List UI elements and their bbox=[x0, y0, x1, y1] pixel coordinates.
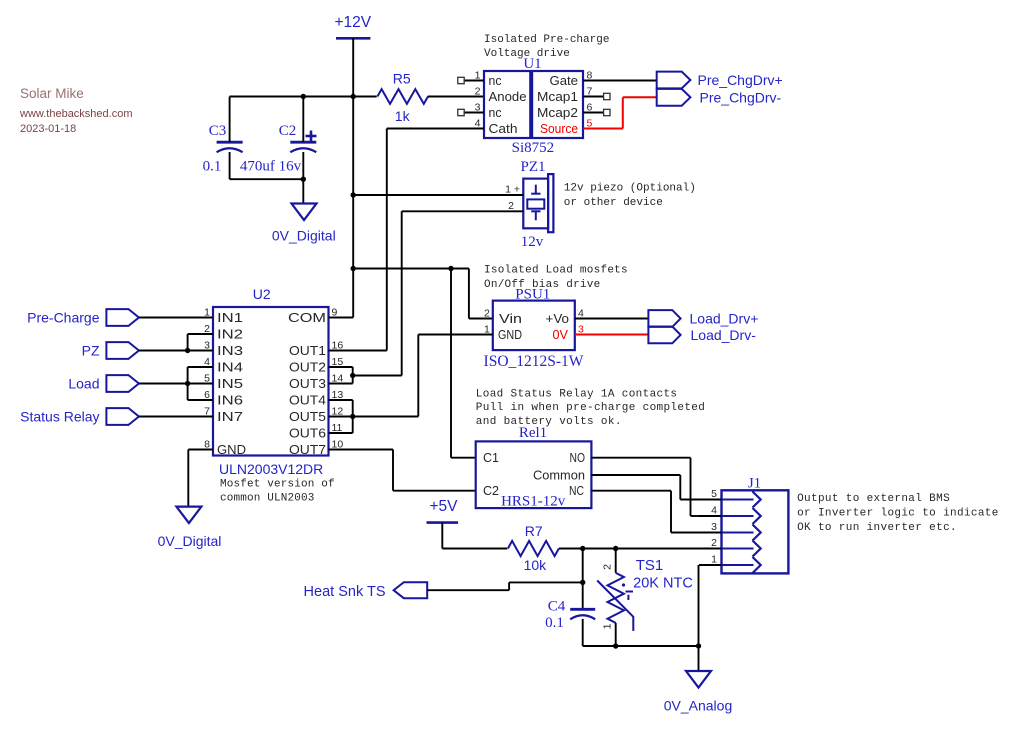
svg-text:0V: 0V bbox=[553, 327, 569, 342]
svg-text:0V_Analog: 0V_Analog bbox=[664, 698, 733, 714]
junction +12V/PZ1 bbox=[351, 192, 356, 197]
junction +12V/Vin branch bbox=[351, 266, 356, 271]
wire C2 top bbox=[302, 97, 304, 143]
wire COM to +12V rail bbox=[329, 317, 354, 319]
wire R7 to C4 bbox=[582, 549, 584, 610]
U1 pin 2 number bbox=[475, 86, 481, 98]
wire U1 Cath down to OUT1 bbox=[387, 129, 484, 351]
svg-text:+Vo: +Vo bbox=[546, 311, 570, 326]
capacitor C2 bbox=[240, 123, 317, 175]
svg-text:PZ1: PZ1 bbox=[520, 159, 545, 175]
wire IN4/IN6 bracket bbox=[188, 367, 213, 400]
wire R7 to TS1 bbox=[615, 549, 617, 573]
svg-text:OUT4: OUT4 bbox=[289, 393, 326, 408]
svg-text:J1: J1 bbox=[748, 476, 761, 492]
svg-text:OUT7: OUT7 bbox=[289, 442, 326, 457]
comment text isolated pre-charge bbox=[484, 34, 609, 60]
U2 pin names right bbox=[288, 310, 326, 457]
wire U2 GND to ground bbox=[188, 450, 213, 507]
svg-text:5: 5 bbox=[711, 488, 717, 500]
svg-text:Output to external BMS: Output to external BMS bbox=[797, 493, 950, 505]
svg-text:Anode: Anode bbox=[489, 89, 527, 104]
svg-text:1: 1 bbox=[602, 623, 614, 629]
wire Status Relay to IN7 bbox=[139, 416, 213, 418]
svg-text:Pre-Charge: Pre-Charge bbox=[27, 310, 100, 326]
svg-text:1k: 1k bbox=[395, 108, 411, 124]
svg-text:6: 6 bbox=[587, 102, 593, 114]
junction C2/C3 bottom bbox=[301, 177, 306, 182]
wire J1 pin1 to 0V_Analog bbox=[698, 565, 700, 671]
U1 pin 6 nc stub bbox=[583, 109, 610, 115]
svg-text:Load Status Relay 1A contacts: Load Status Relay 1A contacts bbox=[476, 389, 678, 401]
comment text load status relay bbox=[476, 389, 705, 429]
wire +12V to PZ1 pin1 bbox=[353, 194, 523, 196]
svg-text:PZ: PZ bbox=[82, 343, 100, 359]
PZ1 pin 2 number bbox=[508, 200, 514, 212]
U1 pin 8 stub/wire to Pre_ChgDrv+ bbox=[583, 80, 657, 82]
wire top rail C3 to R5 bbox=[230, 96, 377, 98]
label Si8752 bbox=[512, 140, 555, 156]
global label Pre_ChgDrv+ bbox=[657, 72, 783, 89]
svg-text:470uf 16v: 470uf 16v bbox=[240, 159, 302, 175]
label Rel1 bbox=[519, 425, 547, 441]
svg-text:Common: Common bbox=[533, 468, 585, 483]
wire Rel1 NO to J1 pin4 bbox=[591, 458, 699, 516]
svg-text:2: 2 bbox=[602, 564, 614, 570]
wire Heat Snk TS to C4/R7 node bbox=[427, 582, 583, 590]
svg-text:C4: C4 bbox=[548, 599, 566, 615]
svg-text:12v piezo (Optional): 12v piezo (Optional) bbox=[564, 183, 696, 195]
red wire PSU1 0V to Load_Drv- bbox=[575, 334, 649, 336]
svg-text:GND: GND bbox=[217, 442, 246, 457]
U1 pin names right bbox=[537, 73, 578, 136]
junction OUT2/3 tap bbox=[350, 373, 355, 378]
U1 pin 4 number bbox=[475, 118, 481, 130]
wire +12V stem bbox=[352, 38, 354, 96]
label 20K NTC bbox=[633, 576, 693, 592]
svg-text:1: 1 bbox=[475, 70, 481, 82]
svg-text:NC: NC bbox=[569, 483, 584, 498]
svg-text:ISO_1212S-1W: ISO_1212S-1W bbox=[484, 353, 584, 370]
wire C2 bottom bbox=[302, 152, 304, 204]
svg-text:Pre_ChgDrv+: Pre_ChgDrv+ bbox=[698, 72, 783, 88]
wire C1 riser bbox=[451, 269, 476, 458]
wire C3 bottom bbox=[230, 152, 304, 179]
label 12v bbox=[521, 234, 544, 250]
svg-text:0.1: 0.1 bbox=[203, 159, 222, 175]
wire Rel1 NC to J1 pin3 bbox=[591, 491, 699, 533]
J1 pin numbers bbox=[711, 488, 717, 566]
wire Pre-Charge to IN1 bbox=[139, 317, 213, 319]
svg-text:IN7: IN7 bbox=[217, 409, 243, 424]
svg-text:4: 4 bbox=[711, 505, 717, 517]
wire OUT7 to Rel1 C2 bbox=[329, 450, 476, 491]
svg-text:nc: nc bbox=[489, 73, 502, 88]
svg-text:or Inverter logic to indicate: or Inverter logic to indicate bbox=[797, 508, 999, 520]
U2 pin names left bbox=[217, 310, 246, 457]
relay Rel1 body bbox=[476, 441, 592, 508]
junction Load/IN4-6 bbox=[185, 381, 190, 386]
url text www.thebackshed.com bbox=[19, 108, 133, 120]
comment text 12v piezo bbox=[564, 183, 696, 210]
wire OUT1 to Cath bbox=[329, 350, 387, 352]
svg-text:C1: C1 bbox=[483, 450, 499, 465]
svg-text:1: 1 bbox=[711, 554, 717, 566]
wire OUT2/3 to PZ1 pin2 bbox=[353, 375, 402, 377]
wire PSU1 +Vo to Load_Drv+ bbox=[575, 318, 649, 320]
svg-text:7: 7 bbox=[587, 86, 593, 98]
svg-text:0V_Digital: 0V_Digital bbox=[158, 533, 222, 549]
U1 pin 6 number bbox=[587, 102, 593, 114]
svg-text:Load_Drv-: Load_Drv- bbox=[691, 327, 757, 343]
svg-text:OUT3: OUT3 bbox=[289, 376, 326, 391]
svg-text:ULN2003V12DR: ULN2003V12DR bbox=[219, 461, 323, 477]
junction 0V_Analog node bbox=[696, 643, 701, 648]
U1 pin 5 number bbox=[587, 118, 593, 130]
svg-text:10k: 10k bbox=[524, 557, 548, 573]
wire C4 bottom bbox=[583, 619, 699, 646]
label TS1 bbox=[636, 557, 664, 574]
global label Load bbox=[68, 375, 139, 392]
global label Load_Drv+ bbox=[648, 310, 758, 327]
TS1 pin 1 number bbox=[602, 623, 614, 629]
junction HeatSnk tap bbox=[580, 580, 585, 585]
label U2 bbox=[253, 286, 271, 302]
svg-text:2: 2 bbox=[711, 537, 717, 549]
wire +12V to PSU1 Vin bbox=[353, 269, 493, 319]
svg-text:Rel1: Rel1 bbox=[519, 425, 547, 441]
thermistor TS1 bbox=[597, 573, 633, 631]
svg-text:HRS1-12v: HRS1-12v bbox=[501, 494, 566, 510]
power symbol +12V bbox=[334, 14, 371, 38]
U2 left pin numbers bbox=[204, 307, 210, 451]
resistor R7 bbox=[508, 523, 559, 573]
junction Vin/C1 tap bbox=[448, 266, 453, 271]
wire PZ1 pin2 to OUT2/3 bbox=[402, 211, 524, 375]
svg-text:OK to run inverter etc.: OK to run inverter etc. bbox=[797, 522, 957, 534]
svg-text:R7: R7 bbox=[525, 523, 543, 539]
junction +12V rail top bbox=[351, 94, 356, 99]
psu PSU1 body bbox=[493, 301, 575, 351]
svg-text:Isolated Load mosfets: Isolated Load mosfets bbox=[484, 265, 628, 277]
junction C2 top bbox=[301, 94, 306, 99]
wire R7 to J1 pin2 bbox=[559, 548, 699, 550]
svg-text:C2: C2 bbox=[483, 483, 499, 498]
svg-text:Load: Load bbox=[68, 376, 99, 392]
connector J1 body bbox=[722, 490, 789, 573]
global label Pre-Charge bbox=[27, 309, 139, 326]
Rel1 pin names bbox=[483, 450, 585, 498]
U2 right pin numbers bbox=[332, 307, 344, 451]
svg-text:or other device: or other device bbox=[564, 197, 663, 209]
wire C3 top bbox=[229, 97, 231, 143]
label ULN2003V12DR bbox=[219, 461, 323, 477]
svg-text:U2: U2 bbox=[253, 286, 271, 302]
svg-text:IN3: IN3 bbox=[217, 343, 243, 358]
svg-text:Pull in when pre-charge comple: Pull in when pre-charge completed bbox=[476, 402, 705, 414]
wire Load to IN5 bbox=[139, 383, 213, 385]
svg-text:NO: NO bbox=[570, 450, 586, 465]
svg-text:C3: C3 bbox=[209, 123, 227, 139]
svg-text:Vin: Vin bbox=[499, 311, 522, 326]
PSU1 pin numbers bbox=[484, 308, 584, 336]
U1 pin 1 nc stub bbox=[458, 77, 484, 83]
U1 pin 3 number bbox=[475, 102, 481, 114]
svg-text:Mcap2: Mcap2 bbox=[537, 105, 578, 120]
svg-text:0V_Digital: 0V_Digital bbox=[272, 228, 336, 244]
TS1 pin 2 number bbox=[602, 564, 614, 570]
global label Heat Snk TS bbox=[304, 582, 428, 600]
svg-text:OUT5: OUT5 bbox=[289, 409, 326, 424]
ground 0V_Digital (top) bbox=[272, 204, 336, 244]
svg-text:IN2: IN2 bbox=[217, 327, 243, 342]
svg-text:+12V: +12V bbox=[334, 14, 371, 31]
junction OUT4/5/6 tap bbox=[350, 414, 355, 419]
wire TS1 bottom bbox=[615, 623, 617, 646]
svg-text:OUT2: OUT2 bbox=[289, 360, 326, 375]
U1 pin 1 number bbox=[475, 70, 481, 82]
U1 pin 8 number bbox=[587, 70, 593, 82]
PZ1 pin 1 number bbox=[505, 184, 520, 196]
label U1 bbox=[523, 56, 541, 72]
svg-text:2: 2 bbox=[508, 200, 514, 212]
svg-text:and battery volts ok.: and battery volts ok. bbox=[476, 416, 622, 428]
wire IN2 bracket bbox=[188, 334, 213, 351]
J1 pin chevrons bbox=[722, 492, 761, 574]
svg-text:0.1: 0.1 bbox=[545, 615, 564, 631]
svg-text:8: 8 bbox=[587, 70, 593, 82]
svg-text:3: 3 bbox=[475, 102, 481, 114]
ground 0V_Analog bbox=[664, 671, 733, 714]
U1 pin names left bbox=[489, 73, 527, 136]
svg-text:www.thebackshed.com: www.thebackshed.com bbox=[19, 108, 133, 120]
svg-text:Heat Snk TS: Heat Snk TS bbox=[304, 584, 386, 600]
wire +12V vertical rail bbox=[352, 97, 354, 318]
svg-text:PSU1: PSU1 bbox=[515, 287, 550, 303]
svg-text:Si8752: Si8752 bbox=[512, 140, 555, 156]
label ISO_1212S-1W bbox=[484, 353, 584, 370]
wire +5V stem bbox=[442, 523, 507, 549]
svg-text:IN5: IN5 bbox=[217, 376, 243, 391]
svg-text:COM: COM bbox=[288, 310, 326, 325]
wire OUT2/OUT3 bracket bbox=[329, 367, 353, 384]
global label PZ bbox=[82, 342, 139, 359]
svg-text:20K NTC: 20K NTC bbox=[633, 576, 693, 592]
red wire U1 Source to Pre_ChgDrv- bbox=[583, 97, 657, 128]
svg-text:C2: C2 bbox=[279, 123, 297, 139]
U1 pin 7 number bbox=[587, 86, 593, 98]
junction R7/TS1 bbox=[613, 546, 618, 551]
svg-text:common ULN2003: common ULN2003 bbox=[220, 493, 315, 505]
op-amp U1 body bbox=[484, 71, 583, 138]
power symbol +5V bbox=[427, 498, 459, 523]
label J1 bbox=[748, 476, 761, 492]
svg-text:2: 2 bbox=[484, 308, 490, 320]
ic U2 body bbox=[213, 307, 329, 456]
svg-text:IN1: IN1 bbox=[217, 310, 243, 325]
wire OUT5 to PSU1 GND bbox=[353, 335, 419, 417]
svg-text:GND: GND bbox=[498, 327, 522, 342]
svg-text:Source: Source bbox=[540, 121, 578, 136]
svg-text:IN6: IN6 bbox=[217, 393, 243, 408]
svg-text:2023-01-18: 2023-01-18 bbox=[20, 123, 76, 135]
comment text mosfet version bbox=[220, 479, 335, 505]
svg-text:Load_Drv+: Load_Drv+ bbox=[690, 311, 759, 327]
svg-text:R5: R5 bbox=[393, 70, 411, 86]
svg-text:OUT6: OUT6 bbox=[289, 426, 326, 441]
global label Status Relay bbox=[20, 408, 139, 425]
svg-text:TS1: TS1 bbox=[636, 557, 664, 574]
svg-text:+5V: +5V bbox=[429, 498, 458, 515]
comment text output to external BMS bbox=[797, 493, 999, 534]
junction TS1 bottom bbox=[613, 643, 618, 648]
svg-text:Status Relay: Status Relay bbox=[20, 409, 99, 425]
global label Load_Drv- bbox=[648, 327, 756, 344]
resistor R5 bbox=[377, 70, 428, 124]
junction PZ/IN2 bbox=[185, 348, 190, 353]
label HRS1-12v bbox=[501, 494, 566, 510]
svg-text:U1: U1 bbox=[523, 56, 541, 72]
title text Solar Mike bbox=[20, 86, 84, 101]
svg-text:Isolated Pre-charge: Isolated Pre-charge bbox=[484, 34, 609, 46]
PSU1 pin names bbox=[498, 311, 569, 342]
junction R7/C4 bbox=[580, 546, 585, 551]
label PSU1 bbox=[515, 287, 550, 303]
svg-text:Pre_ChgDrv-: Pre_ChgDrv- bbox=[700, 89, 782, 105]
svg-text:OUT1: OUT1 bbox=[289, 343, 326, 358]
capacitor C4 bbox=[545, 599, 595, 632]
wire R5 to U1 pin2 bbox=[428, 96, 484, 98]
svg-text:Gate: Gate bbox=[550, 73, 579, 88]
svg-text:nc: nc bbox=[489, 105, 502, 120]
U1 pin 7 nc stub bbox=[583, 93, 610, 99]
svg-text:IN4: IN4 bbox=[217, 360, 243, 375]
capacitor C3 bbox=[203, 123, 243, 175]
wire OUT4/5/6 bracket bbox=[329, 400, 353, 433]
comment text isolated load mosfets bbox=[484, 265, 628, 292]
wire PZ to IN3 bbox=[139, 350, 213, 352]
svg-text:3: 3 bbox=[711, 521, 717, 533]
svg-text:1 +: 1 + bbox=[505, 184, 520, 196]
date text 2023-01-18 bbox=[20, 123, 76, 135]
wire Rel1 Common to J1 pin5 bbox=[591, 475, 699, 500]
global label Pre_ChgDrv- bbox=[657, 89, 782, 106]
J1 pin stubs bbox=[699, 500, 722, 566]
label PZ1 bbox=[520, 159, 545, 175]
svg-text:Solar Mike: Solar Mike bbox=[20, 86, 84, 101]
svg-text:12v: 12v bbox=[521, 234, 544, 250]
wire PSU1 GND left bbox=[418, 334, 493, 336]
svg-text:Cath: Cath bbox=[489, 121, 518, 136]
svg-text:2: 2 bbox=[475, 86, 481, 98]
piezo PZ1 body bbox=[523, 174, 553, 232]
svg-text:Mcap1: Mcap1 bbox=[537, 89, 578, 104]
ground 0V_Digital (U2) bbox=[158, 507, 222, 549]
U1 pin 3 nc stub bbox=[458, 109, 484, 115]
svg-text:Mosfet version of: Mosfet version of bbox=[220, 479, 335, 491]
